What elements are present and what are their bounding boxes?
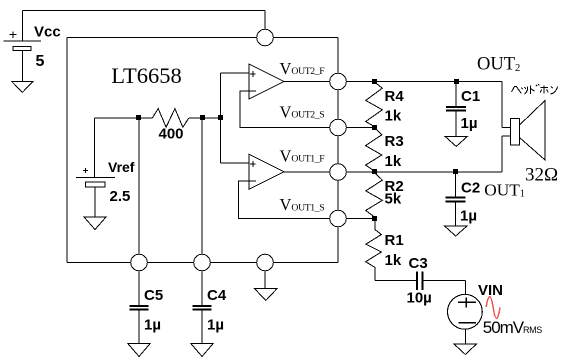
wire Vcc battery stub (21, 11, 23, 42)
svg-text:C5: C5 (144, 287, 163, 304)
junction y118 a (136, 115, 141, 120)
wire pin3 ground stub (264, 271, 266, 289)
junction R4 top (372, 79, 377, 84)
wire OUT1 rail (346, 136, 510, 172)
wire pin1 drop (138, 118, 140, 254)
junction R4-R3 (372, 125, 377, 130)
ground for C4 (191, 344, 213, 357)
headphone speaker (511, 101, 546, 161)
svg-text:32Ω: 32Ω (525, 165, 558, 186)
source VIN (448, 294, 483, 344)
svg-text:C3: C3 (409, 255, 428, 272)
wire pin2 drop (201, 118, 203, 254)
svg-text:Vref: Vref (108, 159, 135, 175)
svg-text:1k: 1k (385, 252, 402, 269)
battery V1 Vcc (4, 31, 42, 81)
svg-text:OUT2: OUT2 (477, 55, 520, 75)
wire C5 stub (138, 271, 140, 306)
wire OUT2 rail (346, 82, 510, 128)
resistor R4 (366, 82, 383, 127)
resistor R3 (366, 128, 382, 171)
svg-text:VOUT1_S: VOUT1_S (280, 195, 325, 214)
wire op-amp plus rail (220, 73, 222, 163)
svg-text:50mVRMS: 50mVRMS (483, 318, 542, 337)
svg-text:Vcc: Vcc (34, 23, 61, 40)
wire VOUT2_S stub (346, 127, 375, 129)
svg-text:2.5: 2.5 (110, 188, 131, 205)
node VOUT2_F pin circle (330, 73, 347, 90)
ground for VIN (454, 344, 477, 355)
svg-text:10µ: 10µ (407, 290, 432, 307)
ground for Vref (84, 217, 106, 230)
capacitor C5 (129, 306, 148, 344)
resistor R1 (366, 219, 382, 280)
wire U2A feedback (240, 91, 330, 128)
wire VOUT1_S stub (346, 218, 375, 220)
ground for C2 (445, 226, 468, 236)
svg-text:1µ: 1µ (207, 317, 224, 334)
svg-text:C2: C2 (461, 180, 480, 197)
wire C3 to VIN (422, 281, 465, 296)
ground for pin3 (254, 288, 277, 300)
node VOUT1_F pin circle (330, 164, 347, 181)
svg-text:1µ: 1µ (461, 115, 478, 132)
capacitor C4 (192, 306, 211, 344)
junction y118 c (218, 115, 223, 120)
wire R1 to C3 (375, 280, 417, 282)
svg-text:VOUT2_S: VOUT2_S (280, 102, 325, 121)
svg-text:1k: 1k (385, 108, 402, 125)
svg-text:R1: R1 (385, 232, 404, 249)
wire Vcc top rail (22, 10, 265, 12)
label headphone katakana (512, 84, 558, 94)
svg-text:VOUT1_F: VOUT1_F (280, 146, 326, 165)
svg-text:R3: R3 (385, 133, 404, 150)
wire x338 pin segments (337, 90, 339, 263)
capacitor C3 (417, 272, 422, 291)
svg-text:R4: R4 (385, 88, 405, 105)
resistor R2 (366, 173, 383, 218)
op-amp U1A (221, 154, 285, 189)
wire U1A output (284, 171, 330, 173)
node bottom pin 2 circle (194, 254, 211, 271)
sine wave icon (486, 297, 500, 319)
svg-text:1k: 1k (385, 153, 402, 170)
node VOUT1_S pin circle (330, 210, 347, 227)
wire y37 rail left (67, 37, 257, 39)
node Vcc pin circle (257, 29, 274, 46)
svg-text:1µ: 1µ (144, 317, 161, 334)
battery V2 Vref (76, 118, 115, 217)
wire top pin drop (264, 11, 266, 30)
op-amp U2A (221, 64, 285, 99)
svg-text:VOUT2_F: VOUT2_F (280, 59, 326, 78)
wire U2A output (284, 81, 330, 83)
wire bottom rail (67, 262, 338, 264)
svg-text:1µ: 1µ (460, 208, 477, 225)
node bottom pin 3 circle (257, 254, 274, 271)
svg-text:400: 400 (159, 126, 184, 143)
junction C2 top (453, 169, 458, 174)
wire y37 rail right (273, 37, 338, 39)
capacitor C2 (446, 172, 466, 226)
svg-text:5: 5 (36, 53, 45, 70)
capacitor C1 (446, 82, 466, 137)
svg-text:5k: 5k (385, 190, 402, 207)
svg-text:C4: C4 (207, 287, 227, 304)
junction C1 top (454, 79, 459, 84)
ground for C1 (445, 136, 467, 146)
svg-text:C1: C1 (461, 88, 480, 105)
ground for C5 (128, 344, 150, 357)
junction R2-R1 (372, 216, 377, 221)
resistor 400 (152, 109, 189, 128)
node bottom pin 1 circle (131, 254, 148, 271)
node VOUT2_S pin circle (330, 119, 347, 136)
wire C4 stub (201, 271, 203, 306)
junction y118 b (200, 115, 205, 120)
wire U1A feedback (239, 181, 330, 219)
wire left rail (66, 38, 68, 263)
svg-text:LT6658: LT6658 (111, 63, 181, 88)
junction R3-R2 (372, 169, 377, 174)
svg-text:OUT1: OUT1 (484, 181, 525, 200)
ground for Vcc (12, 82, 33, 93)
wire Vref node rail y118 (95, 117, 221, 119)
wire x338 top segment (337, 38, 339, 74)
